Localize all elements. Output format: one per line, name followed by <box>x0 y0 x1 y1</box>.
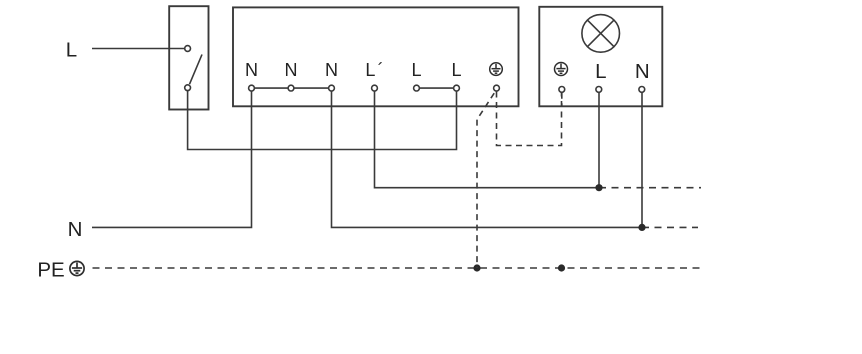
sensor terminal box <box>233 7 519 106</box>
svg-text:N: N <box>635 60 650 83</box>
lamp E1 symbol <box>582 15 620 53</box>
switch S1 top terminal <box>185 46 191 52</box>
svg-text:L: L <box>66 39 77 62</box>
lamp load box <box>539 7 662 107</box>
lamp terminal N <box>639 87 645 93</box>
wire N dashed continuation <box>642 226 698 228</box>
jumper L1-L2 <box>417 87 457 89</box>
wire terminal L' to lamp L line <box>375 91 600 187</box>
switch S1 box <box>169 6 208 109</box>
wire switch bottom to terminal L2 <box>188 91 457 150</box>
terminal N1 <box>249 85 255 91</box>
terminal PE sensor <box>494 85 500 91</box>
wire lamp L drop <box>598 93 600 188</box>
svg-text:L´: L´ <box>365 60 383 80</box>
svg-text:L: L <box>411 60 421 80</box>
lamp PE terminal dashed stub <box>561 93 563 106</box>
svg-text:N: N <box>325 60 338 80</box>
svg-text:N: N <box>285 60 298 80</box>
switch S1 blade <box>190 55 203 85</box>
svg-text:L: L <box>595 60 606 83</box>
wire lamp N drop <box>641 93 643 228</box>
terminal L2 <box>454 85 460 91</box>
terminal L1 <box>414 85 420 91</box>
terminal L' <box>372 85 378 91</box>
lamp terminal PE <box>559 87 565 93</box>
sensor PE earth symbol <box>490 63 503 76</box>
junction PE bus right <box>558 264 565 271</box>
wire PE terminal diagonal dashed drop <box>477 93 494 268</box>
wire L' dashed continuation <box>599 187 701 189</box>
svg-text:N: N <box>245 60 258 80</box>
junction PE bus left <box>473 264 480 271</box>
terminal N3 <box>329 85 335 91</box>
lamp PE earth symbol <box>555 63 568 76</box>
junction L lamp <box>595 184 602 191</box>
wire PE jumper sensor to lamp dashed <box>497 92 562 146</box>
svg-text:L: L <box>451 60 461 80</box>
lamp terminal L <box>596 87 602 93</box>
jumper N1-N2-N3 <box>252 87 332 89</box>
wire terminal N3 to lamp N line <box>332 91 643 227</box>
junction N lamp <box>638 224 645 231</box>
svg-text:N: N <box>68 218 83 241</box>
svg-text:PE: PE <box>37 259 64 282</box>
wire N supply to terminal N1 <box>92 91 252 227</box>
switch S1 bottom terminal <box>185 85 191 91</box>
wire PE bus dashed <box>93 267 701 269</box>
terminal N2 <box>288 85 294 91</box>
PE earth symbol at label <box>70 261 84 275</box>
wire L feed to switch <box>92 48 185 50</box>
